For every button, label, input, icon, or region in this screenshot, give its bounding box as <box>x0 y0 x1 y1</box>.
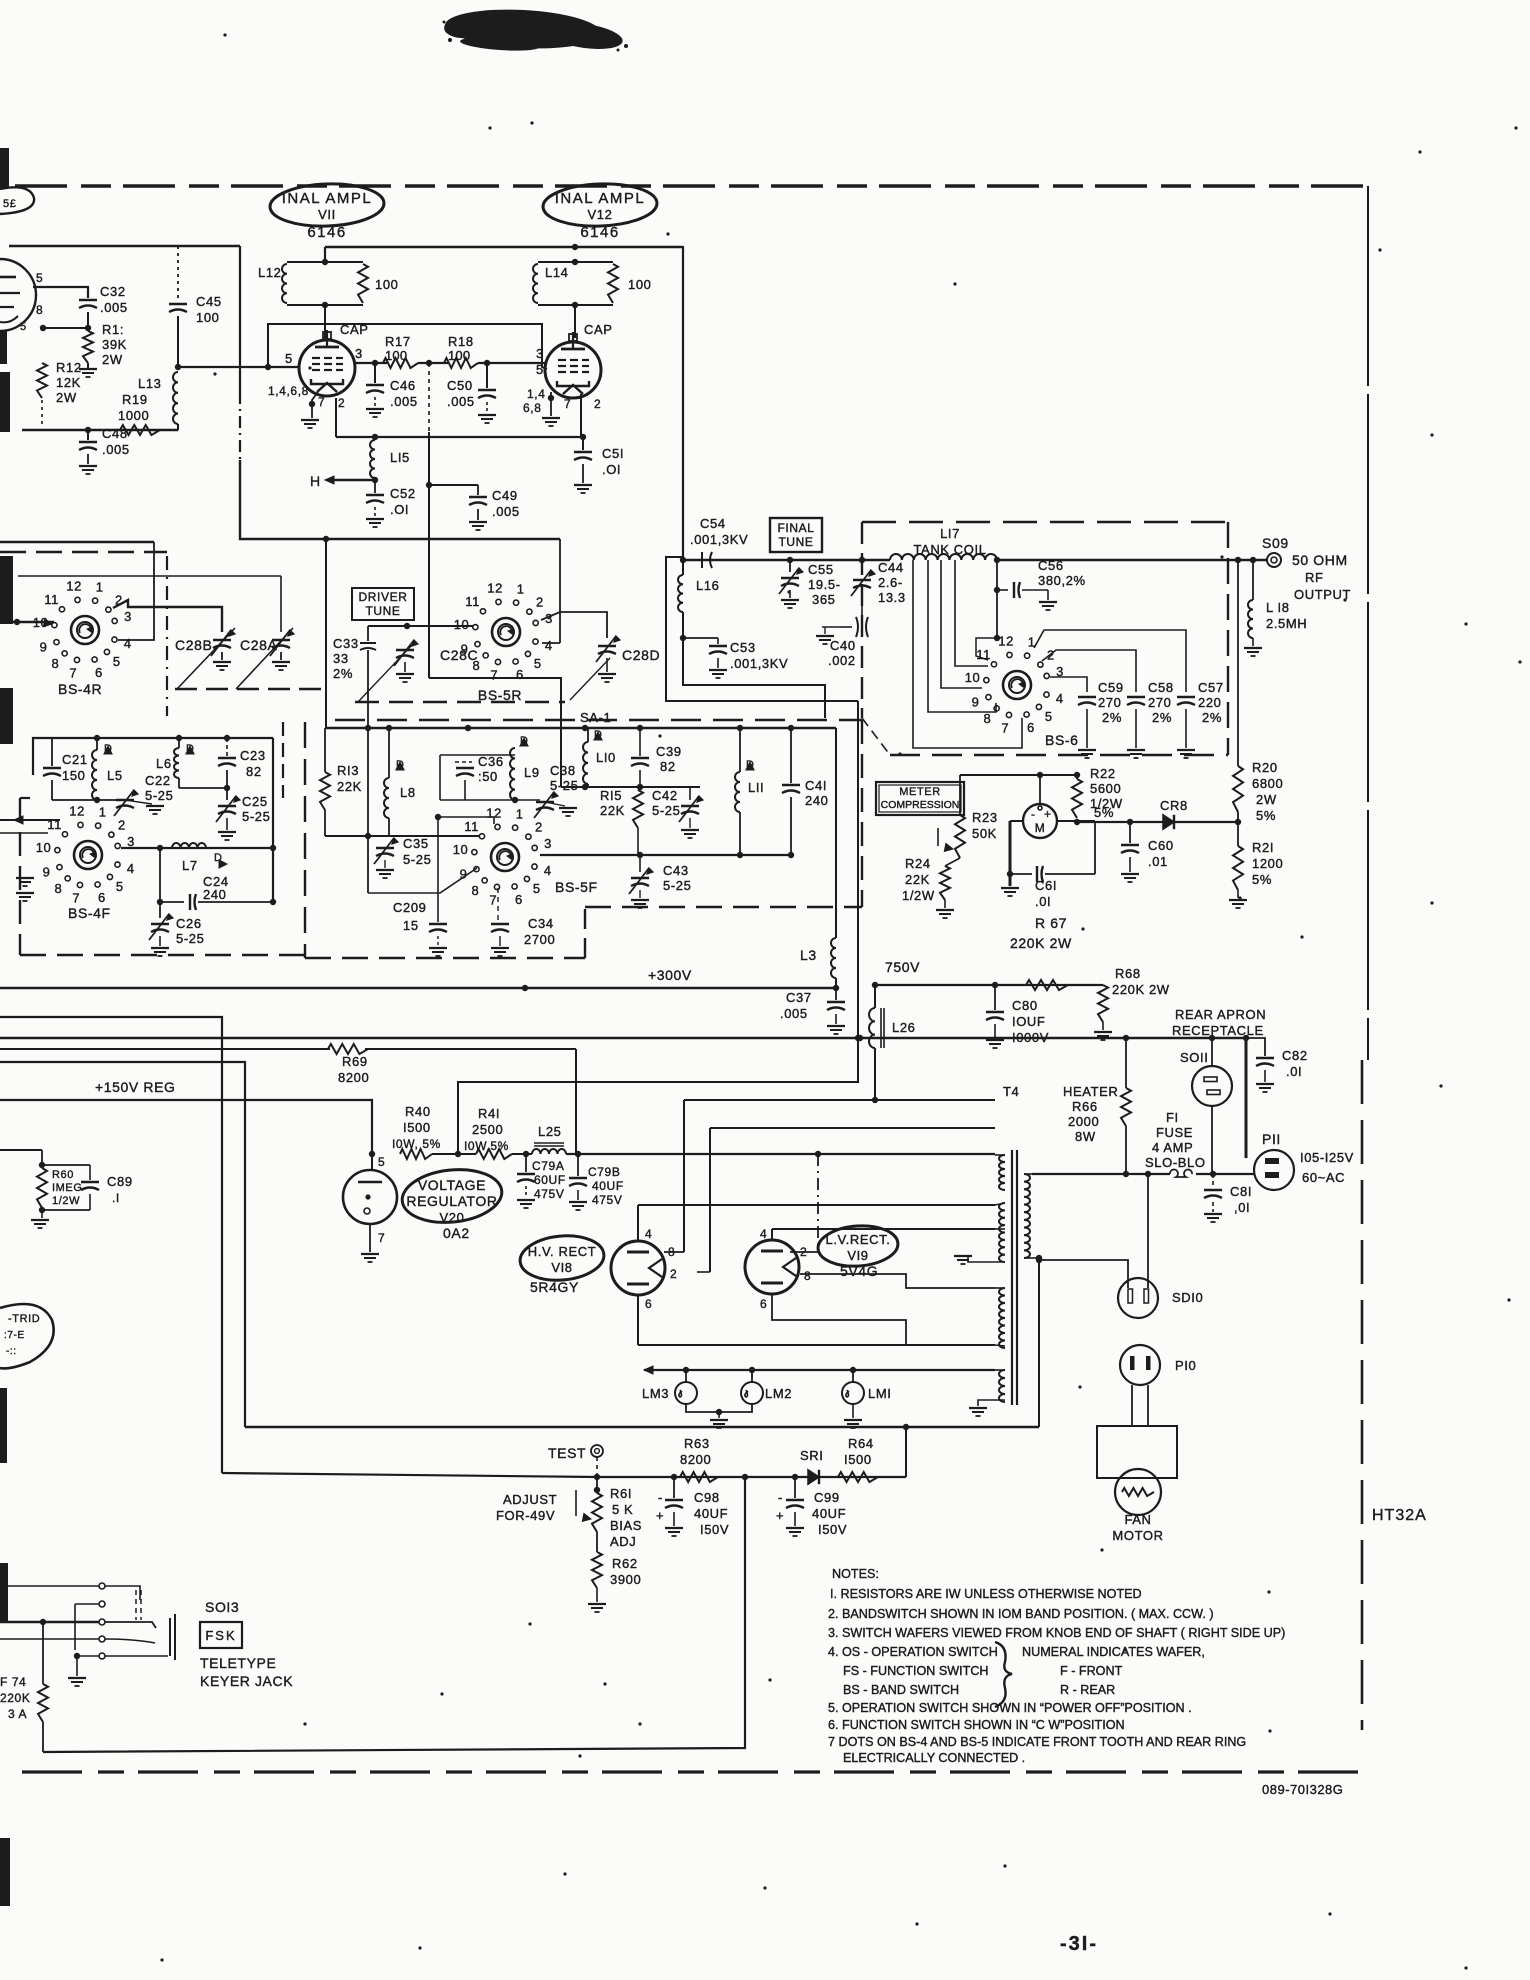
svg-text:380,2%: 380,2% <box>1038 573 1086 588</box>
inductor L11 <box>739 728 741 772</box>
svg-text:6,8: 6,8 <box>523 401 541 415</box>
capacitor C82 .01 <box>1246 1038 1265 1056</box>
svg-text:R - REAR: R - REAR <box>1060 1683 1115 1697</box>
svg-text:40UF: 40UF <box>592 1179 624 1193</box>
svg-text:ADJUST: ADJUST <box>503 1492 557 1507</box>
tube V12 6146 <box>545 342 601 398</box>
ground T4 filament tap <box>978 1400 1005 1406</box>
wire T4 HV top <box>684 1099 995 1101</box>
ground C48 <box>79 465 97 467</box>
svg-text:5%: 5% <box>1252 872 1272 887</box>
svg-text:C99: C99 <box>814 1490 840 1505</box>
svg-text:IMEG: IMEG <box>52 1182 83 1194</box>
diode SR1 <box>808 1470 819 1484</box>
shaft diagonal to C28A <box>236 628 293 689</box>
capacitor C81 .01 <box>1212 1174 1214 1188</box>
svg-text:BS-5R: BS-5R <box>478 687 522 703</box>
resistor R63 8200 <box>680 1472 718 1482</box>
svg-text:3: 3 <box>536 346 544 361</box>
wire tank output to S09 <box>997 559 1268 561</box>
svg-text:6: 6 <box>98 890 106 905</box>
wire SD10 left pin <box>1039 1260 1128 1288</box>
svg-text:.002: .002 <box>828 653 856 668</box>
svg-text:+: + <box>656 1508 664 1523</box>
svg-text:82: 82 <box>246 764 262 779</box>
wire BS-5F top bus <box>326 727 836 729</box>
svg-text:+150V REG: +150V REG <box>95 1079 176 1095</box>
svg-text:8: 8 <box>472 883 480 898</box>
svg-text:60~AC: 60~AC <box>1302 1170 1345 1185</box>
svg-text:LM2: LM2 <box>765 1386 792 1401</box>
wire HV feed from plate bus <box>682 246 684 560</box>
svg-text:5 K: 5 K <box>612 1502 633 1517</box>
svg-text:ADJ: ADJ <box>610 1534 636 1549</box>
svg-text:I500: I500 <box>403 1120 431 1135</box>
label FINAL TUNE box <box>770 518 822 552</box>
svg-text:REGULATOR: REGULATOR <box>406 1193 497 1209</box>
svg-text:RI3: RI3 <box>337 763 359 778</box>
wire FSK line4 <box>0 1638 99 1640</box>
svg-text:-::: -:: <box>6 1346 17 1357</box>
connector S09 RF output <box>1267 553 1281 567</box>
resistor R67 220K 2W <box>1026 980 1068 990</box>
capacitor C51 .01 <box>582 437 584 450</box>
fuse F1 <box>1170 1170 1192 1177</box>
svg-text:100: 100 <box>196 310 220 325</box>
svg-text:R24: R24 <box>905 856 931 871</box>
svg-text:5: 5 <box>534 656 542 671</box>
svg-text:L3: L3 <box>800 947 817 963</box>
wire bus D <box>0 1062 245 1427</box>
inductor L6 <box>174 748 179 778</box>
svg-text:C4I: C4I <box>805 778 827 793</box>
svg-text:2W: 2W <box>56 390 77 405</box>
wire C28A top feed <box>18 575 281 577</box>
ground C42 <box>689 818 691 828</box>
svg-text:7: 7 <box>69 665 77 680</box>
svg-text:+: + <box>776 1508 784 1523</box>
ground R68 <box>1102 1022 1104 1030</box>
svg-text:C39: C39 <box>656 744 682 759</box>
capacitor C46 .005 <box>374 363 376 383</box>
svg-text:1: 1 <box>517 581 525 596</box>
wire grid V11 <box>178 366 299 368</box>
svg-text:C52: C52 <box>390 486 416 501</box>
svg-text:2: 2 <box>338 396 345 410</box>
svg-text:L14: L14 <box>545 265 569 280</box>
svg-text:82: 82 <box>660 759 676 774</box>
svg-text:089-70I328G: 089-70I328G <box>1262 1782 1343 1797</box>
svg-text:4: 4 <box>1056 691 1064 706</box>
capacitor C42 5-25 variable <box>689 787 691 800</box>
svg-text:.OI: .OI <box>390 502 409 517</box>
lamp LM1 <box>852 1370 854 1382</box>
svg-text:BIAS: BIAS <box>610 1518 642 1533</box>
wire R41 up-feed <box>458 1082 858 1154</box>
svg-text:750V: 750V <box>885 959 920 975</box>
resistor R17 100 <box>383 358 418 368</box>
svg-text:220K 2W: 220K 2W <box>1112 982 1170 997</box>
wire FSK line2 <box>75 1603 99 1605</box>
svg-text:C34: C34 <box>528 916 554 931</box>
svg-text:11: 11 <box>464 819 479 834</box>
tube V18 5R4GY <box>611 1241 665 1295</box>
svg-text:C23: C23 <box>240 748 266 763</box>
wire +150V REG line <box>0 1100 372 1154</box>
capacitor C53 .001,3KV <box>683 637 718 639</box>
shaft diagonal to C28C <box>358 645 412 702</box>
svg-text:2%: 2% <box>333 666 353 681</box>
svg-text:V12: V12 <box>588 207 613 222</box>
svg-text:C40: C40 <box>830 638 856 653</box>
svg-text:12: 12 <box>998 633 1014 648</box>
svg-text:2: 2 <box>670 1267 677 1281</box>
svg-text:HEATER: HEATER <box>1063 1084 1118 1099</box>
svg-text:C36: C36 <box>478 754 504 769</box>
svg-text:2000: 2000 <box>1068 1114 1099 1129</box>
wire BS-4R contact4 riser <box>118 542 154 640</box>
svg-text:FAN: FAN <box>1124 1512 1151 1527</box>
ground R21 <box>1237 890 1239 898</box>
capacitor C44 variable 2.6-13.3 <box>861 560 863 574</box>
svg-text:BS - BAND SWITCH: BS - BAND SWITCH <box>843 1683 959 1697</box>
svg-text:C59: C59 <box>1098 680 1124 695</box>
svg-text:PI0: PI0 <box>1175 1358 1196 1373</box>
capacitor C80 10UF 1000V <box>994 985 996 1010</box>
wire C21/L5 bottom <box>52 799 125 801</box>
svg-text:6: 6 <box>95 665 103 680</box>
SA-1 shaft dashes BS-4 section <box>175 688 330 691</box>
svg-text:C28C: C28C <box>440 647 478 663</box>
svg-text:5V4G: 5V4G <box>840 1263 878 1279</box>
resistor R64 1500 <box>838 1472 878 1482</box>
capacitor C59 270 2% <box>1078 696 1096 698</box>
svg-text:I500: I500 <box>844 1452 872 1467</box>
svg-text:.005: .005 <box>100 300 128 315</box>
svg-text:12: 12 <box>487 580 503 595</box>
svg-text:H: H <box>310 473 321 489</box>
svg-text:R18: R18 <box>448 334 474 349</box>
svg-text:5R4GY: 5R4GY <box>530 1279 579 1295</box>
rotary switch BS-6 <box>1003 671 1031 699</box>
svg-text:C48: C48 <box>102 426 128 441</box>
svg-text:1200: 1200 <box>1252 856 1283 871</box>
svg-text:REAR APRON: REAR APRON <box>1175 1007 1266 1022</box>
svg-text:VI9: VI9 <box>847 1248 868 1263</box>
svg-text:R22: R22 <box>1090 766 1116 781</box>
wire V11 plate to R17 <box>355 362 387 364</box>
svg-text:10: 10 <box>36 840 52 855</box>
svg-text:475V: 475V <box>592 1193 622 1207</box>
svg-text:8: 8 <box>804 1269 811 1283</box>
wire AC hot to P11 <box>1245 1038 1248 1158</box>
svg-text:L.V.RECT.: L.V.RECT. <box>826 1232 891 1247</box>
resistor R13 22K <box>324 728 326 772</box>
svg-text:L6: L6 <box>156 756 172 771</box>
svg-text:3. SWITCH WAFERS VIEWED FRO: 3. SWITCH WAFERS VIEWED FROM KNOB END OF… <box>828 1626 1285 1640</box>
svg-text:-: - <box>778 1490 783 1505</box>
ground C46 <box>366 408 384 410</box>
svg-text:1,4: 1,4 <box>527 387 545 401</box>
svg-text:HT32A: HT32A <box>1372 1507 1427 1524</box>
svg-text:60UF: 60UF <box>534 1173 566 1187</box>
wire FSK line3 <box>0 1621 99 1623</box>
svg-text:7: 7 <box>1001 720 1009 735</box>
svg-text:NOTES:: NOTES: <box>832 1567 879 1581</box>
svg-text:KEYER JACK: KEYER JACK <box>200 1673 293 1689</box>
svg-text:VOLTAGE: VOLTAGE <box>418 1177 486 1193</box>
ground C60 <box>1121 873 1139 875</box>
svg-text:6: 6 <box>516 667 524 682</box>
ground R24 <box>944 900 946 908</box>
svg-text:12: 12 <box>486 805 502 820</box>
wire BS-6 contact2 to C58 <box>1042 650 1136 692</box>
plug P10 <box>1120 1345 1160 1385</box>
svg-text:VII: VII <box>318 207 336 222</box>
svg-text:2%: 2% <box>1202 710 1222 725</box>
svg-text:.001,3KV: .001,3KV <box>730 656 788 671</box>
svg-text:R20: R20 <box>1252 760 1278 775</box>
bottom dashed border <box>22 1770 1368 1773</box>
svg-text:7 DOTS ON BS-4 AND BS-5 IN: 7 DOTS ON BS-4 AND BS-5 INDICATE FRONT T… <box>828 1735 1246 1749</box>
svg-text:C98: C98 <box>694 1490 720 1505</box>
wire compartment drop <box>239 246 241 392</box>
svg-text:6146: 6146 <box>580 224 619 241</box>
svg-text:C53: C53 <box>730 640 756 655</box>
capacitor C32 <box>79 299 97 301</box>
ground C80 <box>986 1039 1004 1041</box>
svg-text:40UF: 40UF <box>694 1506 728 1521</box>
svg-text:SLO-BLO: SLO-BLO <box>1145 1155 1206 1170</box>
svg-text:.005: .005 <box>102 442 130 457</box>
svg-text:L5: L5 <box>107 768 123 783</box>
capacitor C52 .01 <box>374 480 376 493</box>
svg-text:R66: R66 <box>1072 1099 1098 1114</box>
svg-text:LM3: LM3 <box>642 1386 669 1401</box>
resistor R12 12K 2W <box>37 363 47 398</box>
svg-text:13.3: 13.3 <box>878 590 906 605</box>
capacitor C99 40UF 150V <box>794 1477 796 1498</box>
svg-text:5: 5 <box>20 321 27 333</box>
svg-text:BS-4R: BS-4R <box>58 681 102 697</box>
svg-text:SDI0: SDI0 <box>1172 1290 1203 1305</box>
resistor R74 220K <box>42 1622 44 1684</box>
ground C209 <box>429 947 447 949</box>
ground FSK <box>76 1656 78 1676</box>
solid box BS-4F filter <box>33 738 273 775</box>
capacitor C48 .005 <box>87 430 89 440</box>
label oval L.V. RECT V19 <box>817 1223 900 1268</box>
capacitor C61 .01 <box>1010 873 1032 875</box>
svg-text:LMI: LMI <box>868 1386 891 1401</box>
wire heater H <box>334 479 375 482</box>
shaft diagonal to C28B <box>177 628 235 689</box>
svg-text:475V: 475V <box>534 1187 564 1201</box>
rotary switch BS-4R <box>71 616 99 644</box>
wire C23/L6 junction <box>178 778 180 788</box>
svg-text:RF: RF <box>1305 570 1324 585</box>
svg-text:R4I: R4I <box>478 1106 500 1121</box>
fan motor <box>1097 1426 1177 1478</box>
svg-text:R1:: R1: <box>102 322 124 337</box>
svg-text:5-25: 5-25 <box>145 788 173 803</box>
svg-text:C54: C54 <box>700 516 726 531</box>
ground C58 <box>1127 749 1145 751</box>
ground V12 cathode <box>550 392 552 416</box>
wire contact9 diagonal <box>368 868 477 893</box>
svg-text:C79A: C79A <box>532 1159 564 1173</box>
capacitor C22 5-25 variable <box>116 799 134 801</box>
svg-text:,0I: ,0I <box>1234 1200 1250 1215</box>
svg-text:C55: C55 <box>808 562 834 577</box>
svg-text:240: 240 <box>805 793 829 808</box>
capacitor C38 5-25 variable <box>536 801 554 803</box>
svg-text:1: 1 <box>99 804 107 819</box>
svg-text:1/2W: 1/2W <box>902 888 935 903</box>
ground LM1 <box>852 1404 854 1418</box>
capacitor C36 :50 <box>439 755 441 800</box>
svg-text:5: 5 <box>36 271 43 285</box>
wire FSK line1 <box>0 1585 99 1587</box>
compartment boundary BS-4R <box>0 551 167 554</box>
wire grid RC feed <box>428 363 430 432</box>
svg-text:150: 150 <box>62 768 86 783</box>
wire HV jog to screen bus <box>666 557 858 701</box>
capacitor C49 .005 <box>477 485 479 495</box>
ground C43 <box>639 890 641 898</box>
svg-text:.0I: .0I <box>1286 1064 1302 1079</box>
svg-text:BS-4F: BS-4F <box>68 905 111 921</box>
svg-text:FSK: FSK <box>205 1628 236 1643</box>
svg-text:19.5-: 19.5- <box>808 577 841 592</box>
svg-text:220: 220 <box>1198 695 1222 710</box>
inductor L3 <box>835 728 837 938</box>
svg-text:3: 3 <box>544 836 552 851</box>
capacitor C98 40UF 150V <box>673 1477 675 1498</box>
svg-text:TUNE: TUNE <box>365 604 400 618</box>
wire screen feed to V12 grid <box>268 324 547 369</box>
wire +300V bus <box>0 987 836 989</box>
wire V18 pin8 <box>664 1251 684 1253</box>
svg-text:C38: C38 <box>550 763 576 778</box>
svg-text:H.V. RECT: H.V. RECT <box>528 1244 597 1259</box>
wire cathode line <box>22 429 178 432</box>
svg-text:C60: C60 <box>1148 838 1174 853</box>
svg-text:R19: R19 <box>122 392 148 407</box>
capacitor C60 .01 <box>1129 822 1131 843</box>
svg-text:.I: .I <box>112 1191 120 1205</box>
svg-text:8W: 8W <box>1075 1129 1096 1144</box>
svg-text:50K: 50K <box>972 826 997 841</box>
ground V11 cathode <box>312 392 318 418</box>
svg-text:METER: METER <box>899 786 941 798</box>
svg-text:C32: C32 <box>100 284 126 299</box>
wire BS-5R contact4 drop <box>559 539 561 643</box>
svg-text:C58: C58 <box>1148 680 1174 695</box>
svg-text:270: 270 <box>1098 695 1122 710</box>
capacitor C28C variable <box>396 649 414 651</box>
wire BS-4R contact2 to C28B <box>113 600 222 632</box>
svg-text:C46: C46 <box>390 378 416 393</box>
svg-text:3: 3 <box>124 609 132 624</box>
wire BS-4F right side <box>272 738 274 902</box>
inductor L12 / resistor 100 parallel <box>287 261 363 263</box>
top dashed border <box>15 184 1368 187</box>
svg-text:I05-I25V: I05-I25V <box>1300 1150 1354 1165</box>
svg-text:2. BANDSWITCH SHOWN IN IOM BA: 2. BANDSWITCH SHOWN IN IOM BAND POSITION… <box>828 1607 1214 1621</box>
wire T4 wire2 <box>710 1127 995 1129</box>
svg-text:4. OS - OPERATION SWITCH: 4. OS - OPERATION SWITCH <box>828 1645 998 1659</box>
svg-text:100: 100 <box>385 348 407 363</box>
svg-text:220K: 220K <box>0 1691 30 1705</box>
capacitor C57 220 2% <box>1177 696 1195 698</box>
svg-text:C44: C44 <box>878 560 904 575</box>
inductor L7 <box>172 843 206 848</box>
svg-text:5: 5 <box>536 362 544 377</box>
svg-text:R2I: R2I <box>1252 840 1274 855</box>
ground C28A <box>280 652 282 660</box>
capacitor C24 240 <box>159 848 161 902</box>
wire AC bus <box>245 1426 1039 1428</box>
capacitor C209 15 <box>429 923 447 925</box>
svg-text:8: 8 <box>984 711 992 726</box>
svg-text:LI0: LI0 <box>596 750 616 765</box>
svg-text:5-25: 5-25 <box>242 809 270 824</box>
wire R60 feed <box>0 1149 42 1151</box>
svg-text:C33: C33 <box>333 636 359 651</box>
svg-text:9: 9 <box>43 865 51 880</box>
svg-text:10: 10 <box>965 670 981 685</box>
svg-text:6. FUNCTION SWITCH SHOWN IN: 6. FUNCTION SWITCH SHOWN IN “C W”POSITIO… <box>828 1718 1125 1732</box>
ground R11 <box>87 363 89 368</box>
svg-text:SA-1: SA-1 <box>580 710 611 725</box>
svg-text:LII: LII <box>748 780 764 795</box>
capacitor C43 5-25 variable <box>639 855 641 872</box>
ground V20 <box>361 1253 379 1255</box>
wire CR8 line <box>1077 821 1238 823</box>
capacitor C34 2700 <box>491 923 509 925</box>
ground R60 <box>41 1210 43 1218</box>
capacitor C79B 40UF 475V <box>577 1154 579 1176</box>
svg-text:TEST: TEST <box>548 1445 586 1461</box>
svg-text:FS - FUNCTION SWITCH: FS - FUNCTION SWITCH <box>843 1664 989 1678</box>
wire LM3-LM2 common <box>686 1404 752 1412</box>
tube V10 (partial at page edge) <box>0 259 36 331</box>
svg-text:BS-6: BS-6 <box>1045 732 1079 748</box>
wire R41 to L25 <box>512 1153 532 1155</box>
ground L18 <box>1252 638 1254 646</box>
svg-text:R40: R40 <box>405 1104 431 1119</box>
svg-text:SRI: SRI <box>800 1448 823 1463</box>
svg-text:TANK COIL: TANK COIL <box>913 542 986 557</box>
svg-text:C89: C89 <box>107 1174 133 1189</box>
svg-text:2%: 2% <box>1102 710 1122 725</box>
wire driver screen line B <box>240 460 560 539</box>
svg-text:8200: 8200 <box>338 1070 369 1085</box>
svg-text:COMPRESSION: COMPRESSION <box>881 799 960 811</box>
wire rect cathode bus <box>638 1344 995 1346</box>
shaft diagonal to C28D <box>570 658 610 700</box>
label oval FINAL AMPL V11 <box>269 182 384 228</box>
svg-text:IOUF: IOUF <box>1012 1014 1045 1029</box>
svg-text:L7: L7 <box>182 858 198 873</box>
inductor L14 / resistor 100 parallel <box>538 261 613 263</box>
svg-text:R12: R12 <box>56 360 82 375</box>
resistor R20 6800 2W 5% <box>1237 560 1239 766</box>
svg-text:VI8: VI8 <box>551 1260 572 1275</box>
svg-text:5: 5 <box>378 1155 385 1169</box>
svg-text:1: 1 <box>96 579 104 594</box>
